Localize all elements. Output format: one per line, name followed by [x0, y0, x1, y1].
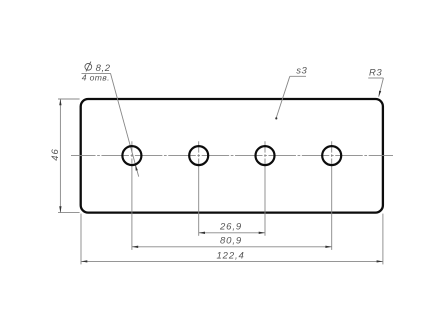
svg-text:4 отв.: 4 отв.	[82, 73, 110, 83]
svg-text:122,4: 122,4	[216, 250, 244, 261]
svg-text:80,9: 80,9	[220, 236, 242, 247]
svg-text:R3: R3	[369, 67, 382, 78]
svg-text:46: 46	[50, 148, 61, 160]
svg-text:26,9: 26,9	[219, 221, 242, 232]
svg-text:s3: s3	[296, 66, 307, 77]
